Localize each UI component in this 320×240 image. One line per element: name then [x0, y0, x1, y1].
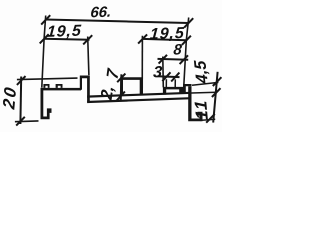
node D: right tick of left 19,5: [83, 35, 92, 44]
wire: left 19,5 dimension line: [44, 39, 90, 40]
profile: right upstand: [183, 84, 192, 94]
svg-text:19,5: 19,5: [149, 24, 185, 43]
wire: extension web top to right dim: [192, 91, 217, 94]
wire: extension from 8 left tick down to small rib: [162, 57, 165, 88]
wire: extension from right 19,5 left tick down to middle rib: [141, 36, 143, 94]
node N: bottom tick crossing web (2 dim): [116, 92, 125, 101]
wire: extension upstand top to right dim: [192, 82, 218, 85]
node E: left tick of right 19,5: [138, 34, 147, 43]
svg-text:66.: 66.: [90, 4, 112, 22]
profile: left wall and bottom foot with lip: [41, 88, 52, 119]
node P: tick at web level: [212, 88, 221, 97]
wire: 20 top extension line: [17, 78, 78, 80]
node G: left tick of 8 dim: [159, 55, 167, 64]
wire: 7/2 dimension line on middle rib: [120, 74, 123, 101]
profile: middle rib on web: [120, 77, 142, 96]
node F: right tick of right 19,5: [182, 36, 191, 45]
profile: small flange rib 2: [56, 84, 63, 88]
svg-text:3: 3: [153, 63, 163, 81]
svg-text:2,: 2,: [97, 83, 118, 102]
node B: right tick of 66 dim: [184, 18, 193, 27]
wire: left extension line: [42, 16, 46, 88]
profile: right wall and foot with lip: [188, 86, 202, 121]
wire: right 19,5 dimension line: [142, 39, 186, 40]
node C: left tick of left 19,5: [40, 34, 49, 43]
svg-text:4,5: 4,5: [190, 60, 212, 85]
profile: small flange rib 1: [43, 84, 49, 88]
wire: extension from left 19,5 right tick down to tall rib: [88, 37, 89, 76]
profile: web top line: [87, 92, 191, 98]
wire: right extension line: [184, 18, 189, 86]
svg-text:7: 7: [103, 66, 123, 80]
node K: top tick of 20 dim: [17, 76, 26, 85]
node Q: tick at foot bottom: [206, 114, 215, 123]
wire: 3 dimension line: [158, 75, 180, 78]
profile: top flange: [41, 88, 82, 91]
node O: tick at upstand top: [213, 77, 222, 86]
wire: 8 dimension line: [158, 58, 189, 61]
wire: right 4,5 and 11 dimension line: [213, 72, 217, 123]
wire: 20 dimension line (left vertical): [19, 77, 22, 125]
node M: top tick of 7 dim: [117, 74, 125, 83]
node L: bottom tick of 20 dim: [16, 117, 25, 126]
profile: web bottom line: [87, 97, 191, 103]
profile: small rib on web right: [163, 87, 183, 95]
svg-text:19,5: 19,5: [46, 22, 82, 41]
svg-text:8: 8: [173, 41, 183, 58]
node A: left tick of 66 dim: [41, 15, 50, 24]
node H: right tick of 8 dim: [180, 55, 188, 64]
node I: left tick of 3 dim: [162, 72, 170, 81]
wire: extensions from 3 ticks to small rib bar: [165, 79, 167, 87]
wire: extension foot bottom to right dim: [200, 119, 215, 120]
svg-text:20: 20: [0, 84, 20, 111]
wire: 20 bottom extension line: [15, 120, 39, 123]
wire: 66 dimension line: [46, 20, 189, 24]
node J: right tick of 3 dim: [171, 73, 179, 82]
profile: tall rib at flange end: [80, 76, 90, 102]
